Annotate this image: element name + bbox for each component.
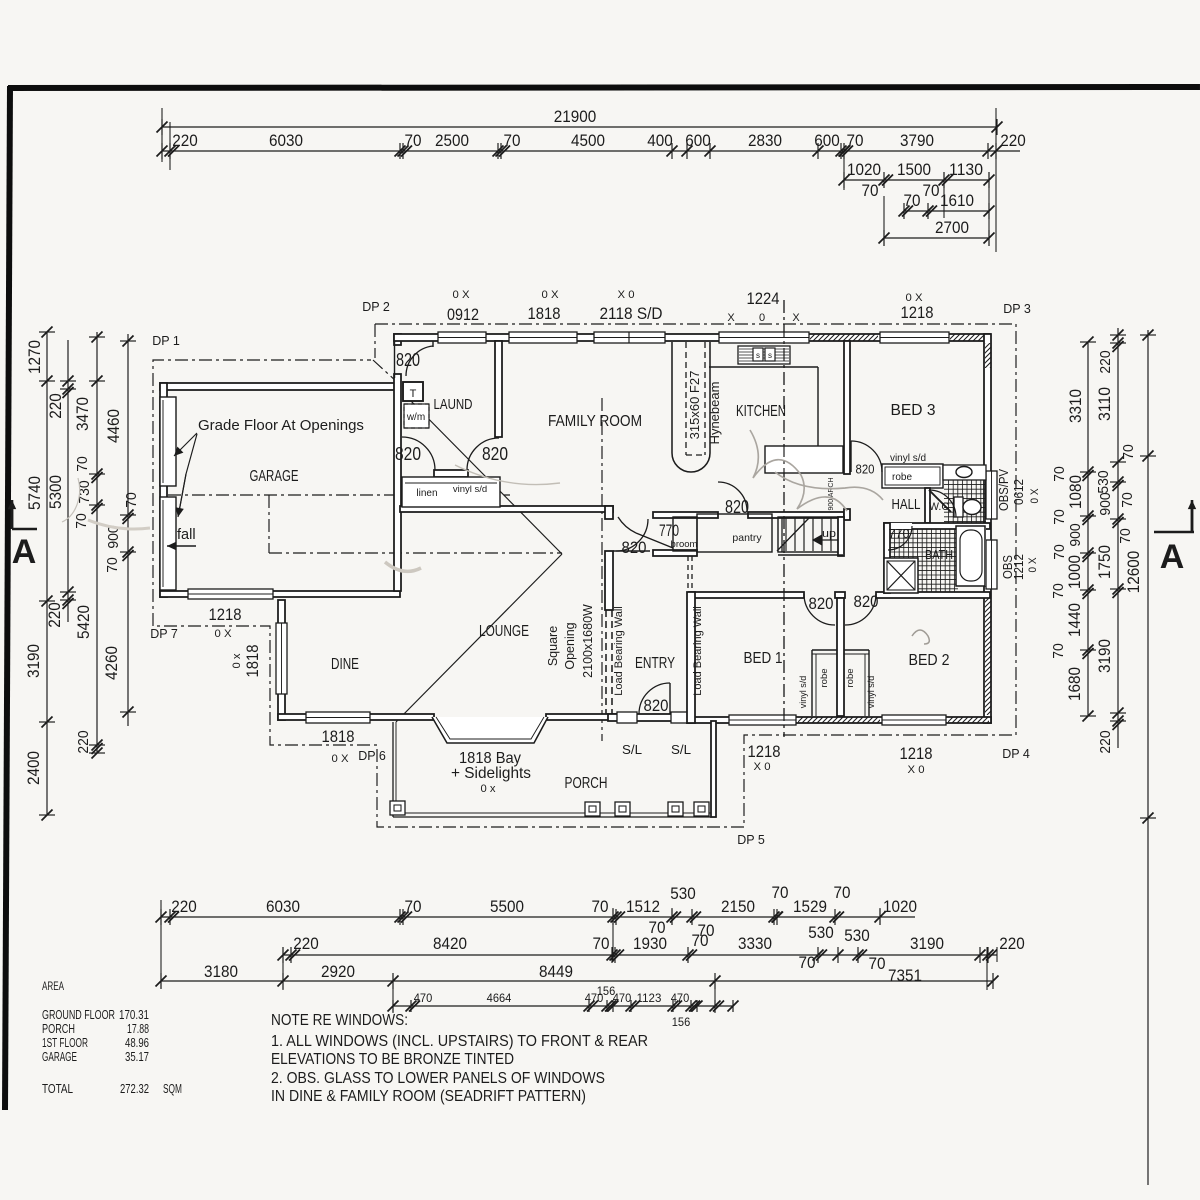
- svg-text:A: A: [12, 533, 37, 571]
- svg-text:1218: 1218: [900, 744, 933, 763]
- svg-text:220: 220: [172, 132, 198, 150]
- svg-text:3180: 3180: [204, 963, 238, 981]
- svg-text:5500: 5500: [490, 898, 524, 916]
- svg-text:220: 220: [1097, 730, 1114, 753]
- svg-text:1020: 1020: [847, 161, 881, 179]
- svg-text:T: T: [410, 388, 417, 400]
- svg-text:820: 820: [725, 497, 749, 517]
- svg-text:Opening: Opening: [563, 622, 577, 669]
- svg-text:4460: 4460: [105, 409, 123, 443]
- svg-text:S/L: S/L: [622, 743, 642, 757]
- svg-text:156: 156: [597, 984, 616, 998]
- svg-text:Load Bearing Wall: Load Bearing Wall: [692, 606, 704, 695]
- svg-text:0912: 0912: [447, 305, 479, 324]
- svg-text:1130: 1130: [949, 161, 983, 179]
- svg-text:s: s: [768, 351, 772, 360]
- svg-text:broom: broom: [671, 539, 698, 550]
- svg-text:vinyl s/d: vinyl s/d: [798, 676, 808, 709]
- svg-text:2500: 2500: [435, 132, 469, 150]
- svg-text:DP 5: DP 5: [737, 833, 765, 847]
- svg-text:1218: 1218: [209, 605, 242, 624]
- svg-text:DP 4: DP 4: [1002, 747, 1030, 761]
- svg-text:3190: 3190: [910, 935, 944, 953]
- svg-text:ELEVATIONS TO BE BRONZE TINTED: ELEVATIONS TO BE BRONZE TINTED: [271, 1051, 514, 1068]
- svg-text:DP 7: DP 7: [150, 627, 178, 641]
- svg-text:2150: 2150: [721, 898, 755, 916]
- svg-text:0 X: 0 X: [332, 753, 350, 765]
- svg-text:530: 530: [1095, 470, 1112, 493]
- svg-text:fall: fall: [177, 527, 196, 543]
- svg-text:3310: 3310: [1067, 389, 1085, 423]
- svg-text:70: 70: [1051, 509, 1068, 525]
- svg-text:70: 70: [1117, 528, 1134, 544]
- svg-text:vinyl s/d: vinyl s/d: [890, 453, 926, 464]
- svg-text:+ Sidelights: + Sidelights: [451, 765, 531, 782]
- svg-text:AREA: AREA: [42, 979, 64, 993]
- svg-text:900 ARCH: 900 ARCH: [828, 477, 835, 510]
- svg-text:Grade Floor At Openings: Grade Floor At Openings: [198, 417, 364, 434]
- svg-text:3110: 3110: [1096, 387, 1114, 421]
- svg-text:820: 820: [644, 696, 669, 715]
- svg-text:2118 S/D: 2118 S/D: [600, 304, 663, 323]
- svg-text:Load Bearing Wall: Load Bearing Wall: [613, 606, 625, 695]
- svg-text:1212: 1212: [1012, 554, 1026, 580]
- svg-text:6030: 6030: [266, 898, 300, 916]
- svg-text:X: X: [727, 312, 735, 324]
- svg-text:0 x: 0 x: [481, 783, 496, 795]
- svg-text:17.88: 17.88: [127, 1021, 149, 1036]
- svg-text:robe: robe: [845, 668, 856, 687]
- svg-text:OBS/PV: OBS/PV: [997, 468, 1011, 511]
- svg-text:70: 70: [504, 132, 521, 150]
- svg-text:70: 70: [592, 898, 609, 916]
- svg-text:8449: 8449: [539, 963, 573, 981]
- svg-text:900: 900: [1097, 492, 1114, 515]
- svg-text:4260: 4260: [103, 646, 121, 680]
- svg-text:SQM: SQM: [163, 1081, 182, 1096]
- svg-text:DP 1: DP 1: [152, 334, 180, 348]
- svg-text:70: 70: [799, 954, 816, 972]
- svg-text:TOTAL: TOTAL: [42, 1081, 73, 1096]
- svg-text:1ST FLOOR: 1ST FLOOR: [42, 1035, 88, 1050]
- svg-text:70: 70: [1120, 444, 1137, 460]
- svg-text:220: 220: [171, 898, 197, 916]
- svg-text:530: 530: [670, 885, 696, 903]
- svg-text:1. ALL WINDOWS (INCL. UPSTAIRS: 1. ALL WINDOWS (INCL. UPSTAIRS) TO FRONT…: [271, 1033, 648, 1050]
- svg-text:70: 70: [1051, 466, 1068, 482]
- svg-text:820: 820: [395, 444, 421, 464]
- svg-text:BED 2: BED 2: [909, 652, 950, 669]
- svg-text:820: 820: [856, 462, 875, 477]
- svg-text:70: 70: [73, 513, 90, 529]
- svg-text:220: 220: [999, 935, 1025, 953]
- svg-text:70: 70: [74, 456, 91, 472]
- svg-text:70: 70: [862, 182, 879, 200]
- svg-text:220: 220: [75, 730, 92, 753]
- svg-text:1750: 1750: [1096, 545, 1114, 579]
- svg-text:170.31: 170.31: [119, 1007, 149, 1022]
- svg-text:5300: 5300: [47, 475, 65, 509]
- svg-text:DP 3: DP 3: [1003, 302, 1031, 316]
- svg-text:HALL: HALL: [892, 496, 921, 513]
- svg-text:1818: 1818: [243, 645, 262, 678]
- svg-text:3330: 3330: [738, 935, 772, 953]
- svg-text:pantry: pantry: [732, 532, 762, 544]
- svg-text:KITCHEN: KITCHEN: [736, 403, 786, 420]
- svg-text:1529: 1529: [793, 898, 827, 916]
- svg-text:0 x: 0 x: [231, 653, 243, 668]
- svg-text:1000: 1000: [1066, 555, 1084, 589]
- svg-text:0 X: 0 X: [1027, 557, 1039, 573]
- svg-text:70: 70: [104, 557, 121, 573]
- svg-text:1080: 1080: [1067, 475, 1085, 509]
- svg-text:820: 820: [809, 594, 834, 613]
- svg-text:robe: robe: [892, 472, 912, 483]
- svg-text:70: 70: [123, 492, 140, 508]
- svg-text:DINE: DINE: [331, 656, 359, 673]
- svg-text:470: 470: [414, 991, 433, 1005]
- svg-text:vinyl s/d: vinyl s/d: [866, 676, 876, 709]
- svg-text:0: 0: [759, 312, 765, 324]
- svg-text:820: 820: [622, 538, 647, 557]
- svg-text:X: X: [792, 312, 800, 324]
- svg-text:70: 70: [834, 884, 851, 902]
- svg-text:70: 70: [869, 955, 886, 973]
- svg-text:1818: 1818: [322, 727, 355, 746]
- svg-text:820: 820: [482, 444, 508, 464]
- svg-text:1610: 1610: [940, 192, 974, 210]
- svg-text:220: 220: [1097, 350, 1114, 373]
- svg-text:900: 900: [1067, 523, 1084, 546]
- svg-text:820: 820: [854, 592, 879, 611]
- svg-text:NOTE RE WINDOWS:: NOTE RE WINDOWS:: [271, 1012, 408, 1029]
- svg-text:BATH: BATH: [925, 548, 953, 562]
- svg-text:PORCH: PORCH: [565, 775, 608, 792]
- svg-text:GROUND FLOOR: GROUND FLOOR: [42, 1007, 115, 1022]
- svg-text:3190: 3190: [25, 644, 43, 678]
- svg-text:LOUNGE: LOUNGE: [479, 623, 529, 640]
- svg-text:21900: 21900: [554, 108, 597, 126]
- svg-text:S/L: S/L: [671, 743, 691, 757]
- svg-text:W.C: W.C: [929, 501, 949, 513]
- svg-text:DP 6: DP 6: [358, 749, 386, 763]
- svg-text:GARAGE: GARAGE: [250, 468, 299, 485]
- svg-text:1512: 1512: [626, 898, 660, 916]
- svg-text:5420: 5420: [75, 605, 93, 639]
- svg-text:w/m: w/m: [406, 412, 425, 423]
- svg-text:3470: 3470: [74, 397, 92, 431]
- svg-text:530: 530: [844, 927, 870, 945]
- svg-text:70: 70: [1119, 492, 1136, 508]
- svg-text:0 X: 0 X: [1029, 488, 1041, 504]
- svg-text:70: 70: [904, 192, 921, 210]
- svg-text:0 X: 0 X: [215, 628, 233, 640]
- svg-text:3790: 3790: [900, 132, 934, 150]
- svg-text:1224: 1224: [747, 289, 780, 308]
- svg-text:272.32: 272.32: [120, 1081, 149, 1096]
- svg-text:470: 470: [671, 991, 690, 1005]
- svg-text:770: 770: [889, 527, 910, 541]
- svg-text:1218: 1218: [901, 303, 934, 322]
- svg-text:1500: 1500: [897, 161, 931, 179]
- svg-text:0612: 0612: [1012, 479, 1026, 505]
- svg-text:X 0: X 0: [908, 764, 925, 776]
- svg-text:70: 70: [847, 132, 864, 150]
- svg-text:2920: 2920: [321, 963, 355, 981]
- svg-text:robe: robe: [819, 668, 830, 687]
- svg-text:8420: 8420: [433, 935, 467, 953]
- svg-text:220: 220: [47, 393, 65, 419]
- svg-text:PORCH: PORCH: [42, 1021, 75, 1036]
- svg-text:Square: Square: [546, 626, 560, 666]
- svg-text:IN DINE & FAMILY ROOM (SEADRIF: IN DINE & FAMILY ROOM (SEADRIFT PATTERN): [271, 1088, 586, 1105]
- svg-text:s: s: [756, 351, 760, 360]
- svg-text:Hynebeam: Hynebeam: [707, 382, 722, 445]
- svg-text:600: 600: [814, 132, 840, 150]
- svg-text:1020: 1020: [883, 898, 917, 916]
- svg-text:70: 70: [1050, 643, 1067, 659]
- svg-text:2400: 2400: [25, 751, 43, 785]
- svg-text:3190: 3190: [1096, 639, 1114, 673]
- svg-text:DP 2: DP 2: [362, 300, 390, 314]
- svg-text:12600: 12600: [1125, 551, 1143, 594]
- svg-text:BED 1: BED 1: [744, 650, 783, 667]
- svg-text:up: up: [822, 528, 836, 540]
- svg-text:1680: 1680: [1066, 667, 1084, 701]
- svg-text:70: 70: [772, 884, 789, 902]
- svg-text:70: 70: [405, 132, 422, 150]
- svg-text:70: 70: [1050, 583, 1067, 599]
- svg-text:1218: 1218: [748, 742, 781, 761]
- svg-text:X 0: X 0: [754, 761, 771, 773]
- svg-text:2100x1680W: 2100x1680W: [581, 604, 595, 678]
- svg-text:70: 70: [405, 898, 422, 916]
- svg-text:0 X: 0 X: [542, 289, 560, 301]
- svg-text:1440: 1440: [1066, 603, 1084, 637]
- svg-text:ENTRY: ENTRY: [635, 655, 675, 672]
- svg-text:5740: 5740: [26, 476, 44, 510]
- svg-text:70: 70: [692, 932, 709, 950]
- svg-text:600: 600: [685, 132, 711, 150]
- svg-text:0 X: 0 X: [453, 289, 471, 301]
- svg-text:35.17: 35.17: [125, 1049, 149, 1064]
- svg-text:400: 400: [647, 132, 673, 150]
- svg-text:530: 530: [808, 924, 834, 942]
- svg-text:2700: 2700: [935, 219, 969, 237]
- svg-text:2830: 2830: [748, 132, 782, 150]
- svg-text:GARAGE: GARAGE: [42, 1049, 77, 1064]
- svg-text:820: 820: [396, 350, 420, 370]
- svg-text:315x60 F27: 315x60 F27: [687, 371, 702, 440]
- svg-text:1123: 1123: [637, 991, 662, 1005]
- svg-text:vinyl s/d: vinyl s/d: [453, 484, 487, 495]
- svg-text:470: 470: [613, 991, 632, 1005]
- svg-text:1930: 1930: [633, 935, 667, 953]
- svg-text:220: 220: [46, 602, 64, 628]
- svg-text:770: 770: [659, 521, 679, 540]
- svg-text:220: 220: [293, 935, 319, 953]
- svg-text:1818: 1818: [528, 304, 561, 323]
- svg-text:X 0: X 0: [618, 289, 635, 301]
- svg-text:4664: 4664: [487, 991, 512, 1005]
- svg-text:2. OBS. GLASS TO LOWER PANELS: 2. OBS. GLASS TO LOWER PANELS OF WINDOWS: [271, 1070, 605, 1087]
- svg-text:FAMILY ROOM: FAMILY ROOM: [548, 413, 642, 430]
- svg-text:BED 3: BED 3: [891, 402, 936, 419]
- svg-text:6030: 6030: [269, 132, 303, 150]
- svg-text:220: 220: [1000, 132, 1026, 150]
- svg-text:linen: linen: [416, 488, 437, 499]
- svg-text:1270: 1270: [26, 340, 44, 374]
- svg-text:LAUND: LAUND: [434, 396, 473, 413]
- svg-text:156: 156: [672, 1015, 691, 1029]
- svg-text:4500: 4500: [571, 132, 605, 150]
- svg-text:A: A: [1160, 538, 1185, 576]
- svg-text:7351: 7351: [888, 967, 922, 985]
- svg-text:70: 70: [593, 935, 610, 953]
- svg-text:48.96: 48.96: [125, 1035, 149, 1050]
- svg-text:70: 70: [923, 182, 940, 200]
